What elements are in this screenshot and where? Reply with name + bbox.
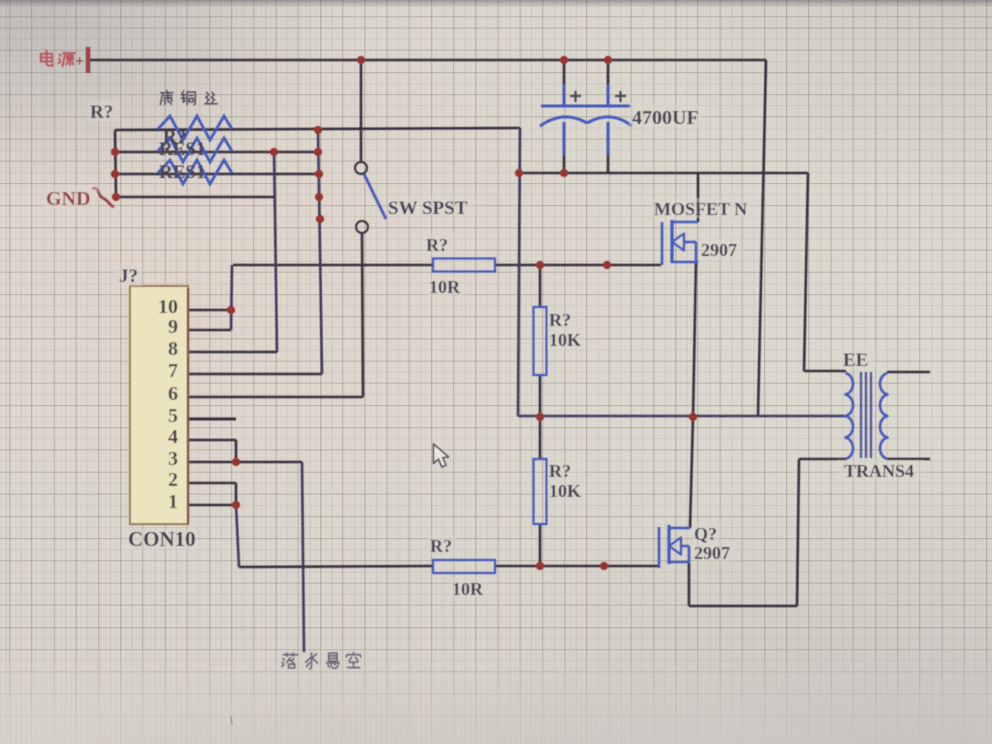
junction (116,197): [112, 193, 120, 201]
junction (320,219): [316, 215, 324, 223]
transformer core lines: [860, 372, 862, 458]
wire: pin10 stub: [188, 309, 231, 312]
wire: pin6 stub to switch: [188, 396, 363, 399]
label 电源 power: [41, 51, 53, 66]
wire: pin7 stub: [188, 373, 322, 376]
wire: MOSFET N source down / Q drain up: [693, 262, 696, 417]
junction (318,152): [314, 148, 322, 156]
wire: left GND column x=518: [518, 128, 520, 416]
junction (540,417): [536, 413, 544, 421]
junction (115,152): [111, 148, 119, 156]
switch SW SPST top contact: [355, 162, 367, 174]
resistor R? row1 zigzag: [158, 116, 232, 140]
transformer secondary winding: [880, 373, 888, 459]
wire: MOSFET N drain up: [697, 173, 700, 222]
GND squiggle: [92, 188, 114, 207]
junction (236,505): [232, 501, 240, 509]
wire: pin9 stub: [188, 329, 231, 332]
wire: capacitor bottom bus y=173: [518, 172, 808, 175]
junction (231,310): [227, 306, 235, 314]
wire: pin5 stub: [188, 418, 236, 421]
wire: pin3 stub: [188, 461, 302, 464]
resistor row 3 wire: [115, 173, 320, 176]
junction (540,566): [536, 562, 544, 570]
wire: pin1 drop: [236, 505, 239, 567]
wire: switch top drop: [360, 60, 363, 162]
wire: mid horizontal (GND rail to transformer center tap): [518, 415, 845, 418]
wire: transformer top-right pin: [887, 371, 930, 374]
switch SW SPST bottom contact: [356, 221, 368, 233]
capacitor top plates: [541, 105, 631, 108]
wire: cap1 bottom lead dark part: [563, 152, 566, 173]
wire: pin8 riser x=275: [274, 152, 277, 352]
capacitor curved plates: [540, 117, 632, 126]
wire: pin1 stub: [188, 504, 236, 507]
power rail top wire: [89, 59, 766, 62]
wire: pin7 riser x=318: [318, 130, 322, 374]
junction (236,462): [232, 458, 240, 466]
dust mark: [231, 716, 232, 725]
wire: transformer top-left pin: [804, 370, 846, 373]
junction (604,566): [600, 562, 608, 570]
wire: pin2 stub: [188, 482, 236, 485]
wire: 10K1 bottom lead: [539, 375, 542, 417]
wire: bottom link to transformer: [689, 605, 797, 608]
wire: 10K2 bottom lead: [539, 524, 542, 566]
resistor R? 10R top body: [433, 259, 495, 272]
transistor U1 MOSFET N symbol: [661, 222, 664, 265]
wire: Q source down: [688, 563, 691, 606]
label 落水悬空 floating net: [282, 653, 298, 668]
wire: pin4 stub: [188, 439, 236, 442]
connector J? CON10 body: [130, 286, 188, 524]
resistor row 2 wire: [115, 151, 320, 154]
resistor row 1 wire: [115, 128, 520, 130]
junction (564,60): [560, 56, 568, 64]
junction (319,197): [315, 193, 323, 201]
wire: pin3 floating drop: [302, 462, 304, 652]
wire: transformer top-left riser: [804, 173, 808, 371]
wire: pin4-pin3 link: [235, 440, 238, 462]
resistor RES1 row3 zigzag: [158, 160, 232, 184]
wire: switch bottom to pin6 vertical: [362, 233, 363, 397]
wire: right rail down to primary center tap: [758, 60, 766, 415]
wire: pins 9/10 riser: [231, 265, 232, 330]
wire: cap2 top lead: [607, 60, 610, 88]
junction (319,174): [315, 170, 323, 178]
wire: pin8 stub: [188, 351, 277, 354]
junction (607,265): [603, 261, 611, 269]
wire: transformer bottom-left pin: [799, 458, 846, 461]
resistor R? 10K upper body: [534, 307, 547, 375]
wire: left end column: [115, 130, 116, 197]
junction (693,417): [689, 413, 697, 421]
resistor R? 10K lower body: [534, 459, 547, 524]
resistor RES1 row2 zigzag: [158, 138, 232, 162]
junction (564,173): [560, 169, 568, 177]
junction (540,265): [536, 261, 544, 269]
wire: bottom gate wire y=567: [239, 566, 433, 567]
junction (115,174): [111, 170, 119, 178]
wire: 10K2 top lead: [539, 417, 542, 459]
label 康铜丝: [160, 90, 173, 104]
label plates: [840, 349, 876, 369]
capacitor C 4700UF leads: [563, 84, 566, 106]
wire: 10K1 top lead: [539, 265, 542, 307]
capacitor + marks: [570, 95, 581, 97]
junction (361,60): [357, 56, 365, 64]
resistor R? 10R bottom body: [433, 560, 495, 573]
wire: gate wire upper 10R row y=265: [233, 264, 433, 267]
wire: pin2-pin1 link: [235, 483, 238, 505]
transformer TRANS4 primary winding: [846, 373, 854, 459]
mouse cursor: [434, 444, 449, 467]
junction (608,60): [604, 56, 612, 64]
wire: transformer bottom-right pin: [887, 458, 930, 461]
switch blade: [364, 174, 386, 219]
wire: cap1 top lead: [563, 60, 566, 88]
wire: cap2 bottom lead dark part: [607, 152, 610, 173]
power port 电源+ bar: [86, 47, 91, 73]
junction (318,130): [314, 126, 322, 134]
transistor Q? symbol: [658, 527, 661, 568]
wire: GND horizontal: [116, 196, 275, 199]
junction (274,152): [270, 148, 278, 156]
junction (519,173): [515, 169, 523, 177]
